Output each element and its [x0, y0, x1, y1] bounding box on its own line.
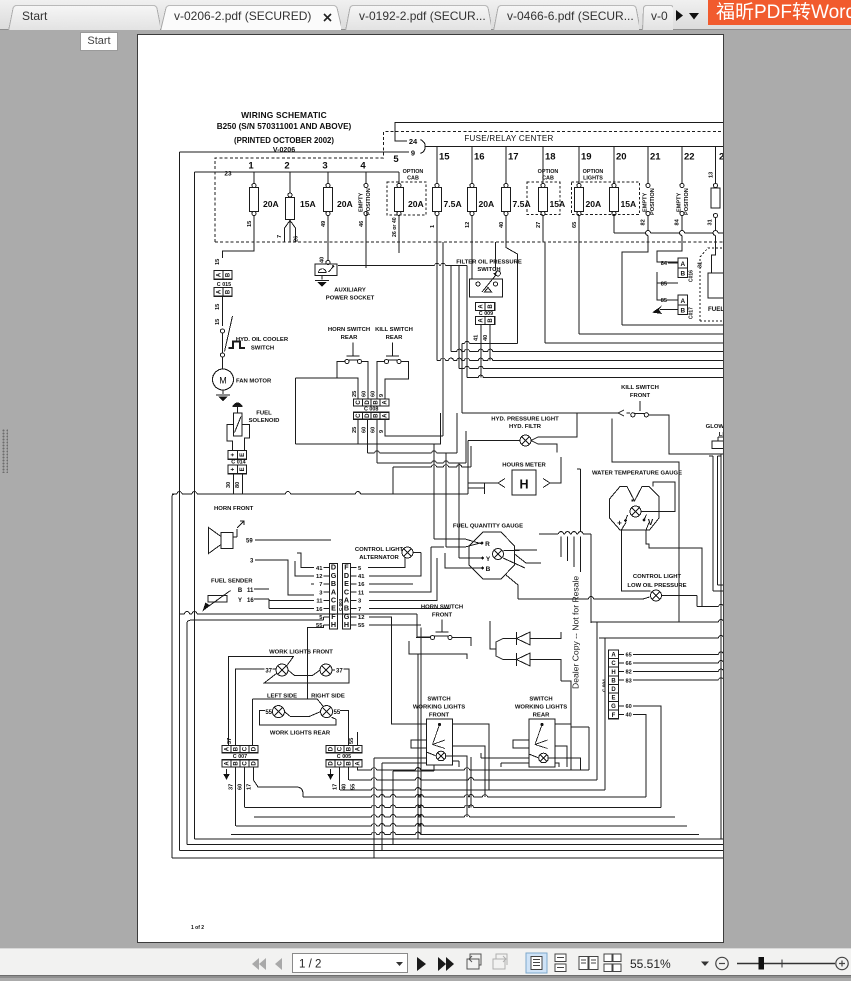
option cab dashed box F18: [527, 182, 560, 215]
svg-text:B250 (S/N 570311001 AND ABOVE): B250 (S/N 570311001 AND ABOVE): [217, 122, 352, 131]
left frame vertical x294: [295, 378, 297, 444]
svg-text:1: 1: [430, 225, 436, 228]
fuse F1 stub: [253, 172, 255, 184]
svg-text:C: C: [338, 761, 344, 766]
connector C003 right strip: [343, 564, 351, 630]
page input: [293, 954, 408, 973]
svg-text:V-0206: V-0206: [273, 147, 295, 154]
svg-text:7: 7: [358, 607, 361, 613]
svg-text:B: B: [374, 400, 380, 405]
svg-text:37: 37: [265, 669, 272, 675]
fuel solenoid cap: [234, 403, 242, 406]
fuse F23 clipped at page edge: [715, 147, 717, 184]
svg-text:A: A: [680, 298, 685, 305]
svg-text:16: 16: [247, 598, 254, 604]
bottom bus y838: [195, 838, 725, 840]
fuse F3 stub: [327, 172, 329, 184]
svg-text:7.5A: 7.5A: [444, 199, 462, 209]
empty position 4: [365, 172, 367, 184]
svg-text:60: 60: [361, 391, 367, 397]
fan motor: [213, 369, 234, 390]
svg-text:B: B: [238, 588, 243, 594]
kill switch rear symbol: [392, 343, 394, 357]
svg-text:20A: 20A: [263, 199, 279, 209]
svg-text:3: 3: [358, 599, 362, 605]
work lights rear top rail: [252, 699, 323, 746]
svg-text:5: 5: [393, 154, 399, 165]
layout: facing: [579, 957, 598, 970]
svg-text:30: 30: [226, 482, 232, 488]
filter oil pressure switch: [470, 279, 503, 297]
connector C015: [214, 271, 232, 280]
C007 wires down: [235, 767, 237, 826]
kill switch front contacts: [639, 401, 641, 411]
svg-text:15A: 15A: [621, 199, 637, 209]
svg-text:7.5A: 7.5A: [513, 199, 531, 209]
svg-text:3: 3: [319, 590, 323, 596]
hyd oil cooler switch contacts: [220, 329, 224, 333]
svg-text:80: 80: [235, 482, 241, 488]
svg-text:OPTION: OPTION: [583, 169, 604, 175]
vertical x588 from diode area: [561, 681, 589, 770]
svg-text:1 of 2: 1 of 2: [191, 925, 204, 931]
svg-text:16: 16: [358, 582, 365, 588]
svg-text:24: 24: [409, 137, 418, 146]
wire from F20 down: [613, 216, 615, 234]
svg-text:+: +: [231, 467, 237, 471]
left bus vertical B: [194, 172, 196, 839]
fuel solenoid enclosure: [227, 425, 250, 448]
svg-text:B: B: [234, 746, 240, 751]
water temp gauge octagon: [610, 487, 660, 531]
svg-text:POSITION: POSITION: [366, 188, 372, 215]
svg-text:19: 19: [581, 152, 592, 163]
bus y324 east: [622, 324, 724, 326]
switch front internals: [438, 723, 441, 726]
svg-text:83: 83: [626, 678, 632, 684]
bottom bus y833: [231, 834, 372, 836]
bottom bus y849: [180, 850, 725, 852]
svg-text:REAR: REAR: [533, 713, 550, 719]
fuel gauge lamp: [493, 549, 504, 560]
svg-text:C: C: [338, 746, 344, 751]
svg-text:FRONT: FRONT: [429, 713, 450, 719]
svg-text:37: 37: [227, 738, 233, 744]
svg-text:82: 82: [640, 219, 646, 225]
svg-text:FRONT: FRONT: [630, 393, 651, 399]
svg-text:B: B: [488, 318, 494, 323]
svg-text:15A: 15A: [550, 199, 566, 209]
work lights rear left lamp: [272, 706, 284, 718]
svg-text:15: 15: [439, 152, 450, 163]
svg-text:A: A: [225, 746, 231, 751]
wire 24 feed from top: [395, 123, 724, 142]
svg-text:20A: 20A: [408, 199, 424, 209]
work lights front left lamp: [276, 664, 288, 676]
fuel gauge wires left R: [434, 539, 482, 547]
wire 46 below position 4: [365, 216, 367, 269]
horn switch rear symbol: [352, 343, 354, 357]
svg-text:C 015: C 015: [217, 282, 231, 288]
svg-text:41: 41: [358, 574, 365, 580]
svg-text:FUEL: FUEL: [256, 411, 272, 417]
svg-text:OPTION: OPTION: [403, 169, 424, 175]
svg-text:D: D: [329, 746, 335, 751]
svg-text:CAB: CAB: [407, 176, 419, 182]
wire 31 drop: [715, 218, 717, 231]
svg-text:A: A: [478, 304, 484, 309]
svg-text:A: A: [680, 261, 685, 268]
tab bar: [0, 0, 851, 30]
svg-text:FUEL QUANTITY GAUGE: FUEL QUANTITY GAUGE: [453, 524, 523, 530]
svg-text:HOURS METER: HOURS METER: [502, 463, 546, 469]
svg-text:85: 85: [661, 281, 667, 287]
switch rear right wires: [548, 724, 580, 770]
glow plugs body: [712, 441, 724, 449]
svg-text:9: 9: [379, 430, 385, 433]
mid-low bus y825: [236, 825, 372, 827]
wire to fan motor: [222, 357, 224, 369]
fuse F15: [436, 147, 438, 184]
staircase drop x433: [433, 444, 435, 539]
diode feed wires: [490, 621, 503, 660]
svg-text:SWITCH: SWITCH: [477, 267, 500, 273]
C008 C wire staircase: [358, 413, 441, 444]
bottom bus y843: [187, 844, 724, 846]
fuel gauge wires right: [503, 550, 541, 568]
mid bus y359 from F15 wire: [436, 242, 438, 361]
C004 wire 82: [633, 671, 719, 673]
vertical cluster x579: [580, 469, 582, 531]
svg-text:B: B: [486, 566, 491, 573]
svg-text:WORK LIGHTS FRONT: WORK LIGHTS FRONT: [269, 650, 333, 656]
svg-text:HYD. PRESSURE LIGHT: HYD. PRESSURE LIGHT: [491, 417, 559, 423]
empty position 21: [647, 147, 649, 184]
svg-text:A: A: [611, 653, 616, 659]
svg-text:C016: C016: [689, 270, 695, 282]
right vertical x720: [720, 454, 722, 839]
fuel gauge pin Y: [481, 557, 484, 560]
svg-text:B: B: [234, 761, 240, 766]
svg-text:82: 82: [626, 670, 632, 676]
svg-text:22: 22: [684, 152, 695, 163]
mid-low bus y796: [303, 796, 372, 798]
mid-low bus y806: [245, 807, 372, 809]
svg-text:KILL SWITCH: KILL SWITCH: [621, 385, 659, 391]
horn switch front wiring: [409, 638, 471, 660]
C003 left wires: [297, 553, 314, 568]
svg-text:H: H: [344, 620, 349, 629]
svg-text:FUSE/RELAY CENTER: FUSE/RELAY CENTER: [464, 134, 553, 143]
svg-text:OPTION: OPTION: [538, 169, 559, 175]
switch working lights rear box: [529, 719, 555, 767]
svg-text:15: 15: [215, 304, 221, 310]
filter switch feed wires: [472, 242, 496, 279]
svg-text:E: E: [240, 453, 246, 457]
svg-text:40: 40: [499, 222, 505, 228]
fuel solenoid body: [234, 413, 243, 436]
svg-text:WATER TEMPERATURE GAUGE: WATER TEMPERATURE GAUGE: [592, 471, 682, 477]
svg-text:55.51%: 55.51%: [630, 957, 671, 971]
svg-text:41: 41: [316, 566, 323, 572]
work lights front top rail: [229, 657, 294, 746]
fuse bus top row: [425, 146, 724, 148]
horn front speaker: [221, 533, 233, 549]
svg-text:20A: 20A: [479, 199, 495, 209]
mid bus y342 west from F17: [506, 242, 517, 344]
svg-text:Y: Y: [238, 598, 242, 604]
svg-text:3: 3: [250, 559, 254, 565]
svg-text:85: 85: [661, 298, 667, 304]
mid bus y342 east from F18: [544, 242, 546, 343]
svg-text:WIRING SCHEMATIC: WIRING SCHEMATIC: [241, 110, 327, 120]
mid bus y350 from x450: [450, 266, 452, 352]
svg-text:Dealer Copy -- Not for Resale: Dealer Copy -- Not for Resale: [571, 576, 581, 689]
svg-text:20A: 20A: [586, 199, 602, 209]
mid bus y367 from x458: [458, 266, 460, 369]
vertical x417: [417, 654, 419, 839]
svg-text:HORN SWITCH: HORN SWITCH: [328, 327, 370, 333]
svg-text:4: 4: [360, 161, 366, 172]
switch working lights front box: [427, 719, 453, 765]
tooltip: [80, 32, 118, 51]
svg-text:65: 65: [572, 222, 578, 228]
svg-text:7: 7: [277, 235, 283, 238]
work lights front wiring: [236, 669, 265, 745]
svg-text:15A: 15A: [300, 199, 316, 209]
connector C004: [609, 650, 619, 719]
svg-text:26: 26: [294, 236, 300, 242]
svg-text:15: 15: [215, 319, 221, 325]
svg-text:ALTERNATOR: ALTERNATOR: [359, 555, 399, 561]
fuse F2 splay prongs: [285, 221, 296, 243]
svg-text:EMPTY: EMPTY: [676, 192, 682, 212]
svg-text:D: D: [365, 413, 371, 418]
wire 9 long feed: [180, 151, 410, 153]
C009 wire 41 down: [480, 325, 482, 378]
fuse F2: [288, 193, 292, 197]
svg-text:D: D: [611, 687, 616, 693]
next view (disabled): [493, 954, 507, 969]
alternator lamp wire: [413, 552, 421, 554]
prev view: [467, 954, 481, 969]
fuse F2 stub: [289, 172, 291, 193]
switch front right wires: [446, 724, 489, 767]
filter switch bottom tabs: [470, 297, 503, 303]
svg-text:40: 40: [483, 335, 489, 341]
wire 82 drop: [647, 216, 649, 231]
fuse F5 stub: [398, 172, 400, 184]
svg-text:55: 55: [265, 710, 272, 716]
wire 27 below F18: [542, 216, 544, 243]
svg-text:31: 31: [697, 262, 703, 268]
wire 40 below F17: [505, 216, 507, 243]
option cab dashed box F5: [387, 182, 426, 215]
svg-text:17: 17: [247, 784, 253, 790]
svg-text:B: B: [374, 413, 380, 418]
wire 26 or 40 below F5: [398, 216, 400, 254]
svg-text:A: A: [382, 413, 388, 418]
hours meter box: [512, 470, 536, 495]
svg-text:12: 12: [465, 222, 471, 228]
svg-text:15: 15: [247, 221, 253, 227]
fuel sender symbol: [208, 596, 227, 603]
svg-text:CONTROL LIGHT: CONTROL LIGHT: [633, 574, 682, 580]
svg-text:60: 60: [370, 427, 376, 433]
control light low oil wires: [517, 596, 519, 599]
control light low oil lamp: [651, 590, 662, 601]
mid-low bus y816: [254, 816, 372, 818]
banner: [708, 0, 851, 25]
fuse F18: [542, 147, 544, 184]
mid-low bus y769: [358, 769, 372, 771]
svg-text:SWITCH: SWITCH: [427, 697, 450, 703]
layout: continuous: [555, 954, 566, 972]
switch rear left wires: [481, 740, 539, 767]
prev page btn (disabled): [275, 958, 282, 970]
glow plugs wire: [718, 437, 724, 441]
svg-text:11: 11: [247, 588, 254, 594]
svg-text:H: H: [331, 620, 336, 629]
svg-text:18: 18: [545, 152, 556, 163]
fuel gauge pin R: [481, 542, 484, 545]
svg-text:55: 55: [351, 784, 357, 790]
svg-text:55: 55: [334, 710, 341, 716]
svg-text:A: A: [356, 761, 362, 766]
svg-text:3: 3: [322, 161, 327, 172]
C008 B wire staircase: [376, 419, 378, 463]
kill switch front feed wire: [462, 412, 618, 414]
svg-text:FUEL F: FUEL F: [708, 306, 724, 313]
right edge vertical pair: [712, 456, 714, 591]
svg-text:31: 31: [708, 219, 714, 225]
C016 pin 85 wire: [657, 272, 668, 283]
mid-low bus y779: [349, 779, 372, 781]
svg-text:55: 55: [349, 738, 355, 744]
C004 wire 83: [633, 679, 719, 681]
svg-text:2: 2: [284, 161, 289, 172]
svg-text:40: 40: [626, 713, 632, 719]
svg-text:POSITION: POSITION: [684, 188, 690, 215]
fuel gauge wire down: [506, 575, 518, 596]
svg-text:20: 20: [616, 152, 627, 163]
grip dots: [2, 429, 8, 473]
svg-text:13: 13: [708, 172, 714, 178]
work lights rear wiring: [260, 711, 337, 726]
svg-text:60: 60: [238, 784, 244, 790]
svg-text:9: 9: [379, 394, 385, 397]
slider: [737, 963, 835, 965]
fuse F1: [252, 183, 256, 187]
svg-text:B: B: [226, 289, 232, 294]
bottom toolbar: [0, 948, 851, 976]
layout: continuous facing: [604, 954, 621, 972]
svg-text:GLOW: GLOW: [706, 424, 724, 430]
wires 30 80 below C014: [233, 474, 235, 494]
fuel gauge wires left Y: [459, 557, 482, 559]
bus y493: [172, 493, 177, 495]
svg-text:D: D: [365, 400, 371, 405]
horn switch rear wiring: [337, 362, 358, 400]
wire 1 below F15: [436, 216, 438, 243]
svg-text:D: D: [329, 761, 335, 766]
svg-text:55: 55: [316, 623, 323, 629]
C017 ground arrow: [668, 308, 678, 310]
svg-text:37: 37: [229, 784, 235, 790]
svg-text:B: B: [347, 746, 353, 751]
water temp left leg down: [621, 530, 650, 591]
bus y637 right: [599, 637, 719, 639]
aux socket ground: [321, 276, 323, 280]
svg-text:15: 15: [215, 259, 221, 265]
fuse F19: [578, 147, 580, 184]
fuse F5: [397, 183, 401, 187]
svg-text:49: 49: [321, 221, 327, 227]
svg-text:LOW OIL PRESSURE: LOW OIL PRESSURE: [627, 583, 686, 589]
next page btn: [417, 957, 426, 971]
svg-text:12: 12: [316, 574, 322, 580]
svg-text:66: 66: [626, 661, 632, 667]
C008 A elbow wire 9: [442, 242, 444, 436]
fuse/relay center dashed enclosure: [215, 132, 724, 243]
first page btn (disabled): [252, 958, 266, 970]
diode D2: [517, 653, 531, 666]
kill switch rear wiring: [377, 362, 384, 400]
svg-text:POWER SOCKET: POWER SOCKET: [326, 296, 375, 302]
hours meter left wire: [498, 479, 505, 488]
switch front left wires: [374, 740, 436, 858]
fuel gauge pin B: [481, 567, 484, 570]
svg-text:1 / 2: 1 / 2: [299, 959, 321, 971]
svg-text:12: 12: [358, 615, 364, 621]
connector C014: [233, 447, 245, 451]
svg-text:C: C: [356, 400, 362, 405]
svg-text:25: 25: [352, 391, 358, 397]
svg-text:60: 60: [361, 427, 367, 433]
svg-text:2: 2: [719, 152, 724, 163]
svg-text:1: 1: [248, 161, 254, 172]
aux power socket: [315, 264, 337, 276]
hyd pressure lamp: [520, 435, 531, 446]
svg-text:16: 16: [474, 152, 485, 163]
mid bus y332 from F19: [578, 242, 580, 334]
svg-text:Y: Y: [486, 556, 491, 563]
svg-text:7: 7: [319, 582, 322, 588]
bottom bus y857: [172, 857, 724, 859]
svg-text:C 005: C 005: [337, 754, 351, 760]
svg-text:17: 17: [333, 784, 339, 790]
svg-text:60: 60: [370, 391, 376, 397]
C004 wire 60: [633, 706, 661, 808]
svg-text:46: 46: [359, 221, 365, 227]
work lights rear right lamp: [321, 706, 333, 718]
work lights front right lamp: [320, 664, 332, 676]
svg-text:A: A: [382, 400, 388, 405]
C004 wire 66: [633, 662, 719, 664]
svg-text:25: 25: [352, 427, 358, 433]
fuel gauge wires left B: [445, 553, 482, 568]
staircase drop x445: [445, 453, 447, 547]
wire 65 below F19: [578, 216, 580, 243]
layout: single (active): [526, 953, 547, 973]
C005 ground arrow: [330, 769, 332, 775]
C005 55 wire to bus769: [357, 769, 359, 771]
wire 15-15 below C015: [222, 296, 224, 326]
svg-text:SOLENOID: SOLENOID: [249, 418, 280, 424]
svg-text:B: B: [226, 272, 232, 277]
svg-text:CONTROL LIGHT: CONTROL LIGHT: [355, 547, 404, 553]
svg-text:A: A: [217, 289, 223, 294]
